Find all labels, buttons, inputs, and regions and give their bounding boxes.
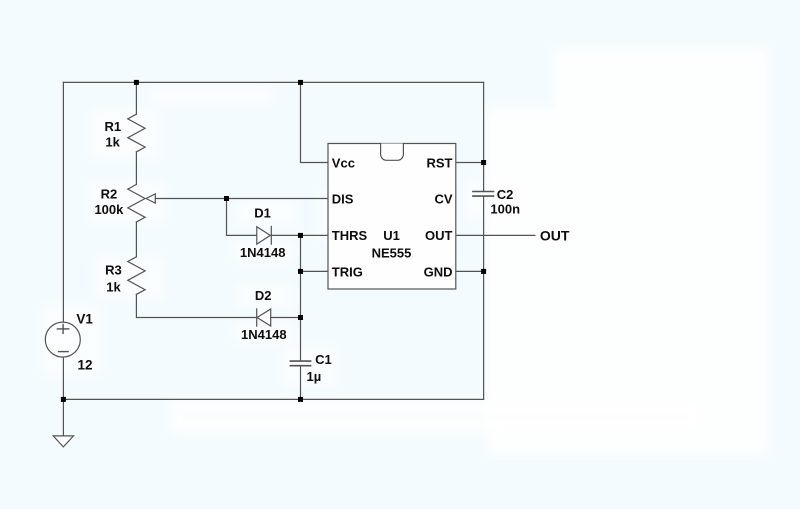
svg-text:OUT: OUT <box>540 227 570 243</box>
wire D1 to THRS pin <box>271 234 328 236</box>
wire R1 top stub <box>135 82 137 114</box>
svg-text:1k: 1k <box>105 135 120 150</box>
svg-text:DIS: DIS <box>332 192 354 207</box>
wire R2 to R3 <box>135 222 137 257</box>
svg-text:D2: D2 <box>255 288 272 303</box>
svg-text:1µ: 1µ <box>307 369 322 384</box>
svg-text:D1: D1 <box>254 206 271 221</box>
svg-text:R3: R3 <box>105 263 122 278</box>
wire GND pin <box>456 270 484 272</box>
node top-Vcc junction <box>298 80 303 85</box>
diode D1 cathode bar <box>270 226 272 244</box>
node C1-bottom rail junction <box>298 397 303 402</box>
wire right rail lower (C2 bottom plate to bottom rail) <box>483 196 485 399</box>
svg-text:1N4148: 1N4148 <box>240 245 286 260</box>
wire D2 to mid vertical <box>271 317 301 319</box>
wire mid vertical (THRS junction down to C1 top plate) <box>300 235 302 361</box>
node THRS junction <box>298 233 303 238</box>
resistor R1 <box>128 114 145 152</box>
svg-text:R1: R1 <box>104 119 121 134</box>
node RST junction <box>481 160 486 165</box>
wire DIS junction down to D1 <box>227 199 257 236</box>
svg-text:C2: C2 <box>497 187 514 202</box>
svg-text:TRIG: TRIG <box>332 264 363 279</box>
svg-text:100k: 100k <box>94 202 124 217</box>
voltage source V1 circle <box>45 322 80 357</box>
wire R1 to R2 <box>135 152 137 185</box>
node top-R1 junction <box>134 80 139 85</box>
wire Vcc branch <box>301 82 329 162</box>
diode D2 cathode bar <box>256 309 258 326</box>
node TRIG junction <box>298 269 303 274</box>
svg-text:THRS: THRS <box>332 228 368 243</box>
wire RST pin <box>456 162 484 164</box>
svg-text:RST: RST <box>427 155 453 170</box>
svg-text:1N4148: 1N4148 <box>241 327 287 342</box>
V1 plus sign <box>57 328 68 330</box>
svg-text:GND: GND <box>424 264 453 279</box>
svg-text:NE555: NE555 <box>372 245 412 260</box>
resistor R2 (potentiometer body) <box>128 184 145 222</box>
wire left rail upper <box>62 82 64 322</box>
diode D2 triangle <box>257 309 271 326</box>
svg-text:100n: 100n <box>490 201 520 216</box>
svg-text:Vcc: Vcc <box>332 155 355 170</box>
node GND junction <box>481 269 486 274</box>
svg-text:C1: C1 <box>315 352 332 367</box>
ground <box>62 399 64 436</box>
capacitor C2 plates <box>473 191 494 193</box>
V1 minus sign <box>59 351 69 353</box>
wire C1 bottom plate to bottom rail <box>300 366 302 400</box>
R2 wiper arrow <box>146 194 155 203</box>
node V1-ground junction <box>61 397 66 402</box>
svg-text:CV: CV <box>434 192 452 207</box>
capacitor C1 plates <box>290 360 310 362</box>
svg-text:12: 12 <box>78 358 93 373</box>
wire R3 bottom to D2 <box>136 294 256 317</box>
svg-text:V1: V1 <box>76 312 93 327</box>
node DIS junction <box>224 196 229 201</box>
svg-text:OUT: OUT <box>425 228 453 243</box>
U1 notch <box>381 144 404 161</box>
resistor R3 <box>128 257 145 295</box>
wire top rail <box>63 81 483 83</box>
node D2 junction <box>298 315 303 320</box>
wire bottom rail <box>63 398 483 400</box>
svg-text:R2: R2 <box>101 187 118 202</box>
wire R2 wiper to DIS pin <box>155 198 328 200</box>
svg-text:1k: 1k <box>106 280 121 295</box>
wire TRIG pin <box>301 270 329 272</box>
op-amp U1 IC body NE555 <box>328 144 456 290</box>
svg-text:U1: U1 <box>383 228 400 243</box>
diode D1 triangle <box>257 227 271 244</box>
wire OUT pin <box>456 234 535 236</box>
wire right rail upper (top rail to C2 top plate) <box>483 82 485 191</box>
wire left rail lower <box>62 357 64 399</box>
